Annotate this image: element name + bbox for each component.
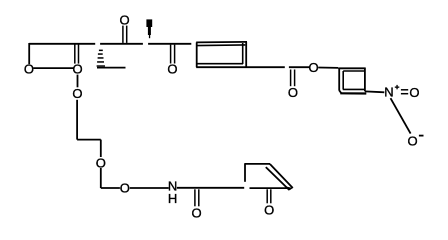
bond benzene to ester C <box>247 66 285 68</box>
svg-text:O: O <box>192 206 202 221</box>
ring R3 ketone C=O <box>266 189 268 203</box>
hashed wedge dash 3 <box>98 57 104 59</box>
hashed wedge dash 1 <box>99 50 103 52</box>
branch methyl line under hashed wedge <box>97 67 126 69</box>
svg-text:O: O <box>167 61 177 76</box>
benzene rect top inner <box>196 44 245 47</box>
hashed wedge dash 5 <box>97 65 105 66</box>
chain horizontal <box>77 139 101 141</box>
ring R2 bottom-left corner diagonal <box>339 91 341 94</box>
ketone1 C=O double bond up <box>122 26 124 43</box>
ketone2 C=O double bond down <box>170 45 172 64</box>
top chain segment wedge to benzene <box>148 43 191 45</box>
svg-text:O: O <box>72 86 82 101</box>
hashed wedge dash 2 <box>98 53 103 55</box>
bond N to carbonyl and on <box>177 187 244 189</box>
nitro N=O double bond <box>401 89 408 91</box>
chain vertical below O_d <box>100 168 102 188</box>
svg-text:O: O <box>264 202 274 217</box>
ring R3 top edge <box>245 163 270 165</box>
benzene rect right outer vertical <box>245 42 247 67</box>
benzene rect top outer <box>196 41 247 44</box>
solid wedge step 2 <box>148 27 151 35</box>
chain into ring R3 <box>250 187 289 189</box>
svg-text:H: H <box>168 191 177 206</box>
ring R3 C=C outer diagonal <box>270 164 293 188</box>
top chain segment stereocenter to wedge <box>100 43 143 45</box>
benzene rect right inner vertical <box>242 43 244 64</box>
ring R2 bottom inner <box>343 88 365 90</box>
ring R2 top inner <box>343 70 364 72</box>
solid wedge step 1 <box>146 19 152 27</box>
bond ring R2 to N <box>365 90 384 93</box>
ring R2 left inner vertical <box>342 71 344 89</box>
ring R1 bottom O-O bond <box>33 67 74 69</box>
ring R3 left vertical <box>244 163 246 182</box>
ring R2 right vertical <box>364 68 366 91</box>
ring R1 left vertical <box>28 43 30 64</box>
chain horizontal to O_e <box>101 187 120 189</box>
ester C=O double bond <box>290 70 292 87</box>
svg-text:O: O <box>288 85 298 100</box>
ring R2 bottom outer <box>340 92 366 94</box>
ring R2 top outer <box>339 67 366 69</box>
solid wedge step 3 <box>149 35 150 38</box>
benzene rect bottom inner <box>196 63 243 65</box>
chain vertical below O_c <box>76 100 78 140</box>
svg-text:O: O <box>407 134 417 149</box>
nitro N plus sign <box>395 87 400 88</box>
ring R1 top edge + chain to stereocenter <box>29 43 95 45</box>
svg-text:O: O <box>73 62 83 77</box>
bond ester O to ring R2 <box>318 67 338 69</box>
svg-text:O: O <box>24 62 34 77</box>
ring R2 left outer vertical <box>338 68 340 91</box>
nitro O minus sign <box>419 135 424 137</box>
benzene rect left vertical <box>196 42 198 67</box>
svg-text:O: O <box>409 85 419 100</box>
svg-text:O: O <box>96 156 106 171</box>
bond ester C to ester O <box>289 66 310 68</box>
hashed wedge dash 4 <box>97 61 104 63</box>
svg-text:O: O <box>309 60 319 75</box>
amide C=O double bond <box>194 189 196 206</box>
bond O_b to O_c <box>77 75 79 88</box>
bond N to O minus diagonal <box>391 98 411 133</box>
ring R3 diagonal junction arrowhead <box>287 187 293 191</box>
svg-text:N: N <box>384 85 393 100</box>
bond O_e to N <box>130 187 169 189</box>
ring R1 right double bond <box>74 44 76 64</box>
chain vertical to O_d <box>100 140 102 157</box>
svg-text:O: O <box>120 181 130 196</box>
benzene rect bottom outer <box>196 66 247 68</box>
svg-text:O: O <box>120 12 130 27</box>
ring R3 C=C inner diagonal <box>266 167 290 190</box>
